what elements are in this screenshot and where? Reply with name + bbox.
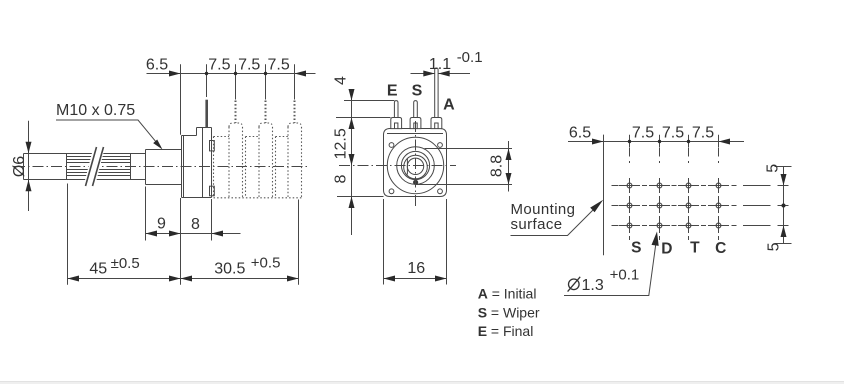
svg-text:12.5: 12.5 bbox=[333, 128, 350, 159]
svg-text:16: 16 bbox=[407, 260, 425, 277]
svg-text:S = Wiper: S = Wiper bbox=[478, 304, 540, 320]
svg-text:45: 45 bbox=[89, 260, 107, 277]
svg-text:±0.5: ±0.5 bbox=[111, 255, 140, 272]
svg-text:C: C bbox=[715, 240, 726, 257]
svg-text:8.8: 8.8 bbox=[488, 155, 505, 177]
svg-text:5: 5 bbox=[766, 242, 783, 251]
svg-text:1.3: 1.3 bbox=[582, 277, 604, 294]
svg-text:7.5: 7.5 bbox=[692, 125, 714, 142]
svg-text:8: 8 bbox=[191, 216, 200, 233]
svg-text:7.5: 7.5 bbox=[208, 56, 230, 73]
svg-text:7.5: 7.5 bbox=[662, 125, 684, 142]
svg-text:S: S bbox=[412, 82, 423, 99]
svg-text:T: T bbox=[690, 240, 700, 257]
svg-text:Ø6: Ø6 bbox=[11, 156, 28, 177]
svg-text:7.5: 7.5 bbox=[238, 56, 260, 73]
svg-text:A: A bbox=[443, 97, 455, 114]
svg-text:7.5: 7.5 bbox=[267, 56, 289, 73]
svg-text:+0.1: +0.1 bbox=[610, 266, 640, 283]
svg-text:A = Initial: A = Initial bbox=[478, 286, 537, 302]
svg-text:8: 8 bbox=[333, 174, 350, 183]
svg-text:E = Final: E = Final bbox=[478, 323, 534, 339]
svg-text:5: 5 bbox=[765, 164, 782, 173]
svg-text:1.1: 1.1 bbox=[429, 56, 451, 73]
svg-text:4: 4 bbox=[333, 76, 350, 85]
svg-text:9: 9 bbox=[157, 215, 166, 232]
svg-text:30.5: 30.5 bbox=[214, 260, 245, 277]
svg-text:6.5: 6.5 bbox=[569, 124, 591, 141]
svg-text:D: D bbox=[661, 241, 672, 258]
svg-text:S: S bbox=[631, 239, 641, 256]
svg-text:-0.1: -0.1 bbox=[457, 49, 483, 66]
svg-text:surface: surface bbox=[511, 216, 563, 233]
svg-text:E: E bbox=[387, 82, 398, 99]
svg-text:M10 x 0.75: M10 x 0.75 bbox=[56, 102, 135, 119]
svg-text:+0.5: +0.5 bbox=[251, 255, 281, 272]
svg-text:7.5: 7.5 bbox=[632, 125, 654, 142]
svg-text:6.5: 6.5 bbox=[146, 56, 168, 73]
